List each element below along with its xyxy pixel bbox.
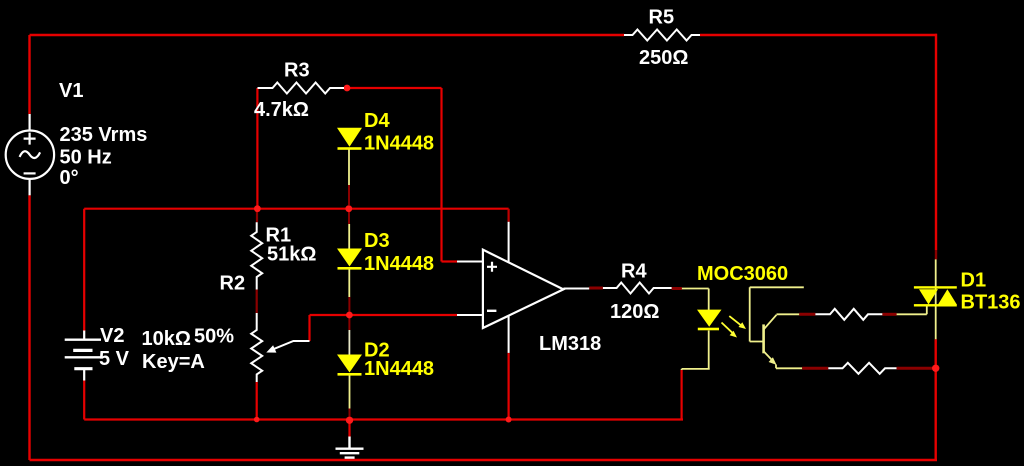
wire op-amp V- red segment down to rail: [508, 353, 510, 420]
wire D4 top dark stub: [348, 185, 350, 205]
svg-text:R5: R5: [649, 7, 675, 29]
node op-amp V- rail junction: [506, 417, 512, 423]
node D3/D2 wiper junction: [346, 312, 353, 319]
wire phototriac MT2 stub: [750, 287, 804, 341]
svg-text:1N4448: 1N4448: [364, 253, 434, 275]
wire bottom inner rail y419.5: [84, 418, 683, 420]
svg-text:V2: V2: [100, 325, 124, 347]
node ground junction: [346, 417, 353, 424]
wire right border below triac to bottom: [935, 339, 937, 460]
wire top border right segment: [700, 34, 937, 36]
node R1 top junction: [254, 205, 261, 212]
wire D4 anode yellow lead: [348, 149, 350, 185]
wire left border bottom (V1 to bottom rail): [28, 195, 30, 460]
svg-text:R3: R3: [284, 60, 310, 82]
node diode chain / rail junction: [345, 205, 352, 212]
optocoupler MOC3060 light arrows: [722, 316, 747, 337]
resistor R3: [258, 83, 345, 94]
wire LED cathode yellow return: [682, 331, 710, 372]
potentiometer R2 wiper arrowhead: [266, 345, 276, 352]
wire battery bottom: [83, 381, 85, 420]
svg-text:Key=A: Key=A: [142, 351, 205, 373]
diode D4 1N4448: [337, 128, 362, 150]
wire R4 right dark stub: [672, 287, 682, 290]
wire battery top (rail corner down to V2+): [83, 209, 85, 331]
wire gate resistor dark stub: [882, 313, 896, 316]
wire wiper vertical: [308, 315, 310, 341]
wire triac yellow vertical: [935, 259, 937, 339]
AC source V1: [6, 114, 54, 195]
svg-text:D4: D4: [364, 110, 390, 132]
svg-text:235 Vrms: 235 Vrms: [60, 124, 148, 146]
wire gate yellow: [897, 305, 927, 314]
svg-text:50%: 50%: [194, 326, 234, 348]
svg-text:D3: D3: [364, 230, 390, 252]
wire LED input yellow: [682, 289, 709, 311]
optocoupler U2 MOC3060 LED: [697, 310, 722, 331]
svg-text:51kΩ: 51kΩ: [267, 244, 316, 266]
wire top border left segment: [30, 34, 625, 36]
wire op-amp V+ red stub: [508, 209, 510, 222]
svg-text:1N4448: 1N4448: [364, 358, 434, 380]
resistor R7 (emitter): [828, 363, 896, 374]
wire D3 top dark stub: [348, 212, 350, 224]
wire +input vertical: [440, 88, 442, 262]
wire D3 cathode yellow lead: [348, 268, 350, 297]
wire emitter yellow: [776, 365, 802, 369]
wire D2 cathode yellow lead: [349, 374, 351, 409]
svg-text:10kΩ: 10kΩ: [142, 328, 191, 350]
wire -input horizontal to op-amp: [310, 314, 458, 316]
wire R3 left vertical down to rail: [256, 88, 258, 209]
wire D3-D2 dark stub: [348, 297, 350, 330]
wire emitter dark stub: [802, 367, 828, 370]
svg-text:5 V: 5 V: [99, 348, 130, 370]
ground: [336, 437, 364, 458]
wire left border top (V1 to top rail): [28, 35, 30, 114]
svg-text:0°: 0°: [60, 167, 79, 189]
resistor R6 (gate): [815, 309, 882, 320]
svg-text:D1: D1: [961, 270, 987, 292]
triac D1 BT136: [914, 286, 957, 306]
potentiometer R2: [251, 313, 309, 382]
wire D2 anode pale lead: [348, 330, 350, 355]
wire LED return red down to rail: [680, 370, 682, 420]
svg-text:1N4448: 1N4448: [364, 133, 434, 155]
wire R1-R2 link: [256, 290, 258, 314]
wire R3 right to +in corner: [347, 87, 442, 89]
optocoupler MOC3060 photo-triac: [764, 315, 777, 363]
wire right border dark stub above triac: [935, 250, 937, 259]
svg-text:250Ω: 250Ω: [639, 47, 688, 69]
node triac / emitter resistor junction: [932, 365, 939, 372]
wire op-amp output dark stub: [589, 287, 603, 290]
optocoupler emitter arrowhead: [769, 357, 777, 365]
resistor R4: [603, 283, 672, 294]
svg-text:LM318: LM318: [539, 333, 601, 355]
wire inner rail y209 (battery+ to op-amp V+): [84, 208, 508, 210]
wire +input horizontal to op-amp: [442, 260, 458, 262]
svg-text:BT136: BT136: [961, 292, 1021, 314]
wire emitter resistor right dark stub: [897, 367, 934, 370]
battery V2: [65, 331, 101, 381]
node R2 bottom junction: [254, 417, 260, 423]
wire collector dark stub: [799, 313, 815, 316]
op-amp U1 LM318: [457, 222, 589, 353]
svg-text:V1: V1: [59, 80, 83, 102]
svg-text:4.7kΩ: 4.7kΩ: [254, 99, 309, 121]
svg-text:R2: R2: [220, 273, 246, 295]
wire R1 top stub: [256, 209, 258, 223]
wire ground stub red: [348, 420, 350, 436]
resistor R5: [624, 30, 700, 41]
svg-text:50 Hz: 50 Hz: [60, 147, 112, 169]
diode D2 1N4448: [337, 355, 362, 376]
diode D3 1N4448: [337, 249, 362, 270]
wire bottom border: [30, 459, 938, 462]
svg-text:MOC3060: MOC3060: [697, 263, 788, 285]
wire D2 bottom dark stub: [349, 409, 351, 421]
wire R2 bottom to rail: [256, 382, 258, 420]
svg-text:R4: R4: [621, 261, 647, 283]
resistor R1: [251, 222, 262, 289]
wire D3 anode yellow lead: [348, 224, 350, 249]
svg-text:120Ω: 120Ω: [610, 301, 659, 323]
node R3/D4 junction: [344, 85, 351, 92]
wire collector yellow: [777, 313, 800, 315]
wire right border (top, to triac): [935, 34, 937, 250]
